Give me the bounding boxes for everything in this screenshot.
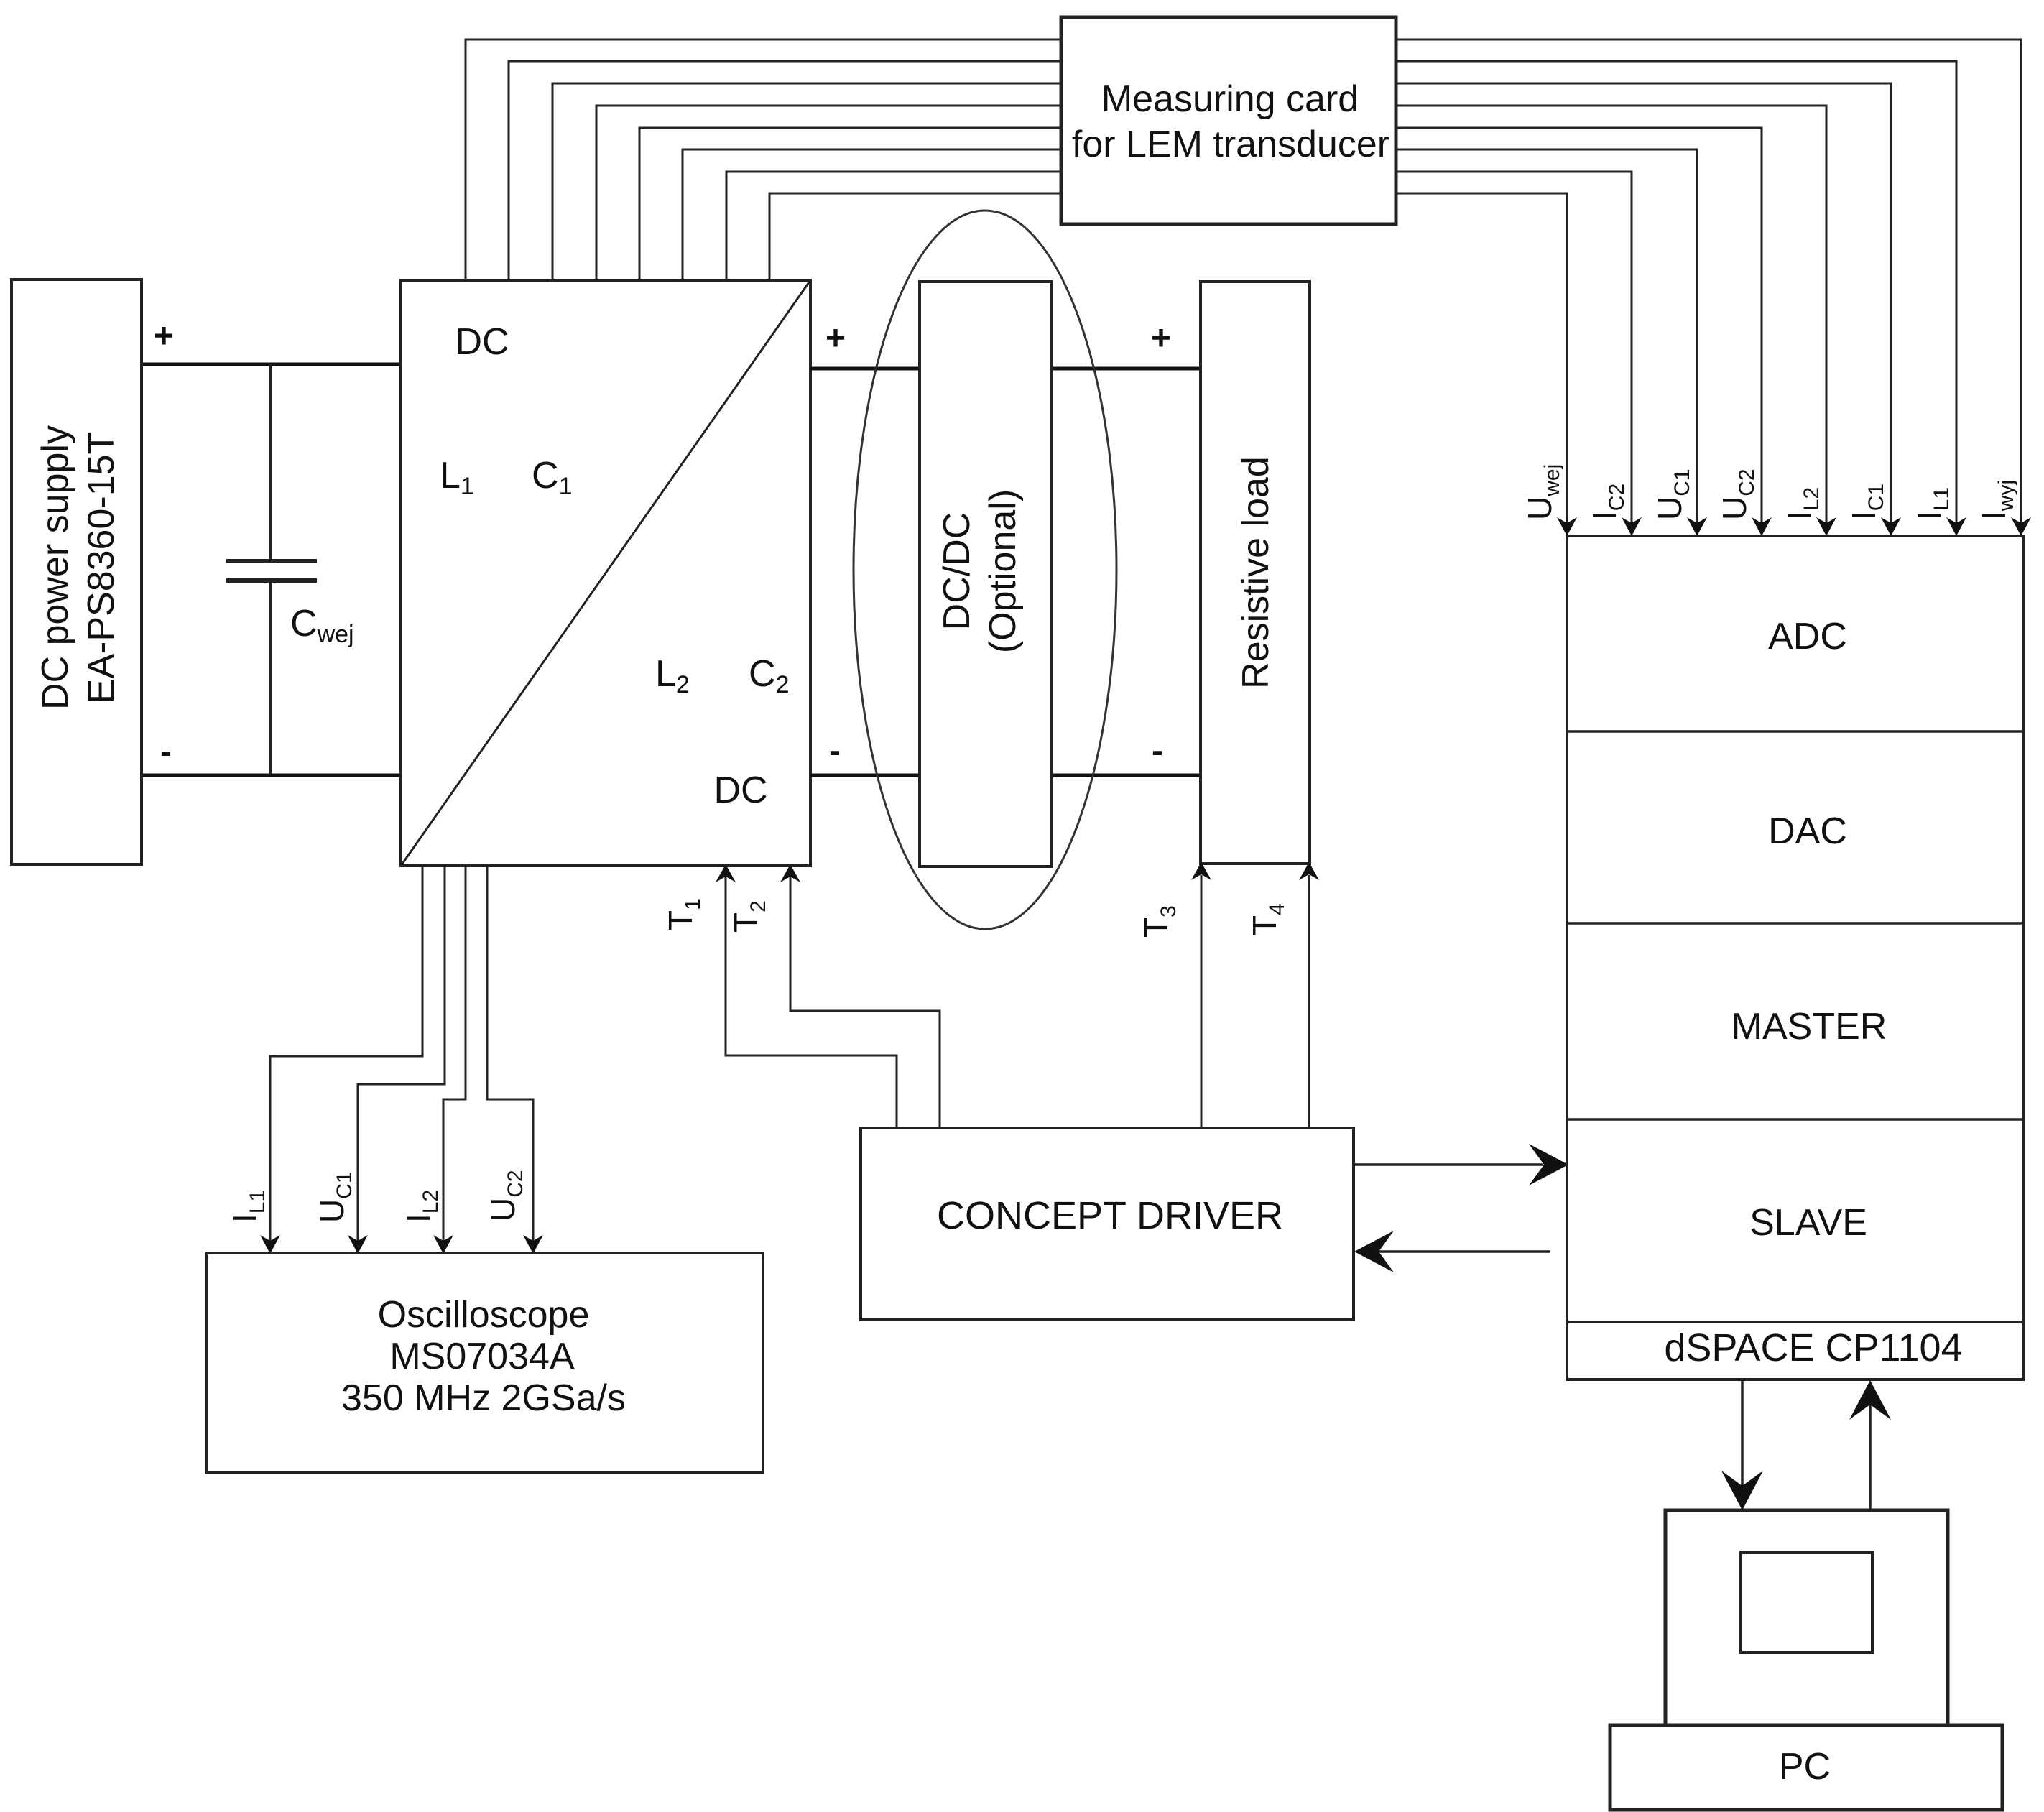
block label SLAVE — [1749, 1202, 1867, 1244]
block label DAC — [1768, 810, 1847, 852]
svg-text:-: - — [160, 733, 172, 771]
wire T1 (driver to converter) — [716, 864, 897, 1128]
node label IC2 at ADC input — [1586, 484, 1629, 520]
svg-text:Resistive load: Resistive load — [1235, 456, 1277, 689]
svg-text:CONCEPT DRIVER: CONCEPT DRIVER — [937, 1194, 1283, 1237]
PC base box — [1610, 1725, 2002, 1810]
svg-text:Measuring card: Measuring card — [1101, 78, 1359, 120]
wire driver to SLAVE arrow — [1354, 1144, 1568, 1185]
block label MASTER — [1731, 1006, 1887, 1048]
value label Cwej — [290, 603, 354, 648]
block label dSPACE CP1104 — [1664, 1326, 1962, 1369]
wire - rail (optional to load) — [1052, 774, 1201, 777]
node label IL2 at ADC input — [1780, 487, 1823, 520]
node + label (converter input) — [154, 318, 174, 356]
CONCEPT DRIVER box — [861, 1128, 1354, 1320]
wire T2 (driver to converter) — [780, 864, 940, 1128]
wire Uwej measurement (converter to ADC) — [769, 193, 1577, 536]
block label ADC — [1768, 616, 1847, 657]
wire dSPACE to PC arrow — [1721, 1379, 1763, 1510]
label DC (output side) — [713, 769, 767, 811]
wire UC2 measurement (converter to ADC) — [639, 128, 1772, 536]
svg-text:for LEM transducer: for LEM transducer — [1072, 124, 1389, 165]
node label IL1 at oscilloscope — [226, 1190, 269, 1223]
svg-text:+: + — [154, 318, 174, 356]
svg-text:-: - — [829, 732, 841, 770]
PC monitor box — [1665, 1510, 1948, 1725]
DC power supply EA-PS8360-15T box — [11, 279, 142, 864]
wire Iwyj measurement (converter to ADC) — [466, 40, 2031, 536]
wire IC1 measurement (converter to ADC) — [552, 83, 1901, 536]
measuring card box — [1061, 17, 1396, 224]
node label UC1 at oscilloscope — [313, 1171, 356, 1223]
wire UC2 (converter to oscilloscope) — [487, 866, 543, 1254]
svg-text:MASTER: MASTER — [1731, 1006, 1887, 1048]
wire + rail (optional to load) — [1052, 367, 1201, 371]
node label UC1 at ADC input — [1651, 468, 1694, 520]
node - label (converter output) — [829, 732, 841, 770]
svg-text:DC/DC: DC/DC — [936, 512, 978, 631]
node label IL1 at ADC input — [1910, 487, 1953, 520]
node label IL2 at oscilloscope — [399, 1190, 443, 1223]
svg-text:SLAVE: SLAVE — [1749, 1202, 1867, 1244]
capacitor Cwej — [226, 364, 317, 775]
svg-text:Oscilloscope: Oscilloscope — [378, 1294, 590, 1336]
capacitor label C1 — [532, 455, 572, 500]
node label Uwej at ADC input — [1521, 464, 1564, 520]
wire PC to dSPACE arrow — [1849, 1380, 1891, 1510]
capacitor label C2 — [749, 653, 789, 698]
node + label (load input) — [1151, 320, 1171, 358]
svg-text:-: - — [1152, 732, 1163, 770]
wire - rail (supply to converter) — [141, 774, 401, 777]
wire + rail (converter to optional) — [810, 367, 920, 371]
svg-text:DC: DC — [713, 769, 767, 811]
wire UC1 measurement (converter to ADC) — [683, 149, 1707, 536]
svg-text:ADC: ADC — [1768, 616, 1847, 657]
wire T4 (driver to load side) — [1299, 862, 1319, 1128]
svg-text:EA-PS8360-15T: EA-PS8360-15T — [80, 432, 122, 704]
node + label (converter output) — [826, 320, 846, 358]
dSPACE CP1104 box — [1567, 536, 2023, 1379]
pin label T3 — [1137, 905, 1180, 938]
pin label T2 — [727, 900, 770, 933]
svg-text:DAC: DAC — [1768, 810, 1847, 852]
svg-text:(Optional): (Optional) — [982, 489, 1024, 653]
wire - rail (converter to optional) — [810, 774, 920, 777]
svg-text:MS07034A: MS07034A — [389, 1336, 575, 1377]
inductor label L1 — [440, 455, 474, 500]
svg-text:350 MHz 2GSa/s: 350 MHz 2GSa/s — [341, 1377, 626, 1419]
pin label T1 — [662, 898, 705, 930]
svg-text:DC: DC — [455, 321, 509, 363]
node label UC2 at oscilloscope — [484, 1170, 527, 1221]
node - label (load input) — [1152, 732, 1163, 770]
label DC (input side) — [455, 321, 509, 363]
svg-text:+: + — [826, 320, 846, 358]
wire UC1 (converter to oscilloscope) — [348, 866, 445, 1254]
node - label (converter input) — [160, 733, 172, 771]
inductor label L2 — [655, 653, 690, 698]
ellipse highlight around optional converter — [854, 211, 1116, 929]
wire IL1 (converter to oscilloscope) — [260, 866, 422, 1254]
wire IL1 measurement (converter to ADC) — [509, 61, 1966, 536]
node label UC2 at ADC input — [1716, 468, 1759, 520]
pin label T4 — [1246, 903, 1289, 935]
wire T3 (driver to load side) — [1191, 862, 1211, 1128]
svg-text:dSPACE CP1104: dSPACE CP1104 — [1664, 1326, 1962, 1369]
wire IL2 measurement (converter to ADC) — [596, 106, 1836, 536]
svg-text:DC power supply: DC power supply — [34, 425, 76, 710]
oscilloscope box — [206, 1253, 763, 1473]
resistive load box — [1201, 282, 1310, 864]
svg-text:+: + — [1151, 320, 1171, 358]
wire + rail (supply to converter) — [141, 363, 401, 366]
DC/DC optional converter U2 box — [920, 282, 1052, 866]
wire IC2 measurement (converter to ADC) — [726, 172, 1642, 536]
node label Iwyj at ADC input — [1975, 480, 2018, 520]
wire IL2 (converter to oscilloscope) — [433, 866, 466, 1254]
svg-text:PC: PC — [1779, 1746, 1831, 1788]
node label IC1 at ADC input — [1845, 484, 1888, 520]
DC/DC converter U1 box — [401, 280, 810, 866]
wire SLAVE to driver arrow — [1354, 1231, 1550, 1272]
